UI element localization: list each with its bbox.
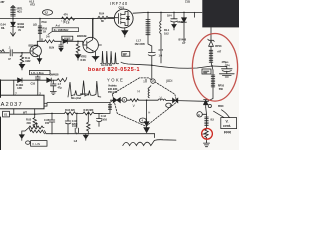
svg-text:BLN: BLN <box>49 45 54 49</box>
svg-text:V. LIN: V. LIN <box>32 142 40 146</box>
tick node F <box>41 39 43 42</box>
capacitor CP4 wide <box>222 69 233 74</box>
H coil <box>148 86 151 98</box>
wire collector drop Q2 <box>92 19 94 38</box>
circled pin 4b <box>139 118 146 123</box>
diode DP2 up <box>204 100 208 108</box>
svg-text:Q1-3: Q1-3 <box>119 5 125 9</box>
capacitor C12 branch <box>51 80 57 91</box>
paper background <box>0 0 239 150</box>
svg-text:R.05: R.05 <box>26 118 32 122</box>
node junction dots on top rail <box>12 18 94 20</box>
svg-text:L1.7: L1.7 <box>136 39 141 43</box>
svg-text:R1.1: R1.1 <box>164 28 170 32</box>
resistor R08 vertical <box>87 113 90 134</box>
ground mid bottom <box>83 134 88 141</box>
diode D10 <box>18 78 38 82</box>
MOSFET Q1 body diode <box>127 15 130 22</box>
svg-text:cent.: cent. <box>223 124 231 128</box>
svg-text:R.04: R.04 <box>99 12 105 16</box>
ground C12 <box>50 92 56 95</box>
red ellipse annotation <box>192 34 237 102</box>
svg-text:R.06 680: R.06 680 <box>84 108 94 112</box>
svg-text:1·8–1·8va: 1·8–1·8va <box>31 71 44 75</box>
tick pin 1 <box>145 79 147 82</box>
diode D12 right <box>63 39 78 43</box>
resistor R04 horizontal <box>98 16 114 19</box>
svg-text:560: 560 <box>219 87 224 91</box>
transistor Q3 emitter arrow <box>37 55 39 57</box>
arrow terminal to bottom wire <box>144 126 149 133</box>
svg-text:4V: 4V <box>18 28 21 32</box>
svg-text:4.8V: 4.8V <box>17 86 22 90</box>
capacitor C10 vertical <box>35 76 40 95</box>
svg-text:FFR: FFR <box>224 131 231 135</box>
capacitor C05 <box>49 113 55 134</box>
resistor R201 top-left vertical <box>11 6 16 19</box>
resistor RP10 ladder <box>206 75 215 102</box>
open circle terminal <box>208 104 211 107</box>
svg-text:R.04 220: R.04 220 <box>65 108 75 112</box>
svg-text:4122: 4122 <box>25 59 31 63</box>
adjust label box <box>31 141 47 147</box>
ground bottom right chain <box>203 142 209 147</box>
transistor Q2 internals <box>83 19 93 52</box>
wire from spikes to cap node <box>121 62 152 65</box>
MOSFET Q1 body circle <box>114 9 133 28</box>
bowtie connector right <box>173 98 178 102</box>
wire to Q2 base <box>78 41 83 45</box>
diode D11 <box>38 78 57 82</box>
resistor 474 horizontal <box>62 17 89 20</box>
waveform scale box <box>122 52 130 57</box>
svg-text:474: 474 <box>64 12 69 16</box>
svg-text:C17: C17 <box>159 48 164 52</box>
svg-text:152-1505: 152-1505 <box>135 42 146 46</box>
svg-text:C.04: C.04 <box>72 119 78 123</box>
svg-text:D.10Ω: D.10Ω <box>16 83 23 87</box>
wire yoke row <box>110 100 208 101</box>
ground under R06 <box>75 55 80 61</box>
svg-text:15/16: 15/16 <box>101 117 108 121</box>
resistor R11 vertical <box>20 53 23 65</box>
svg-text:R.11: R.11 <box>25 56 31 60</box>
capacitor C08 to ground <box>59 41 63 48</box>
wire long bottom <box>45 131 155 138</box>
red circle annotation <box>202 128 213 139</box>
sawtooth waveform <box>68 81 101 98</box>
resistor under pot <box>31 130 45 134</box>
svg-text:Z1Ω: Z1Ω <box>185 0 190 4</box>
ground under C08 <box>59 48 63 51</box>
left edge line lower <box>0 117 2 150</box>
capacitor C14 to ground <box>171 12 178 24</box>
label danger box <box>52 28 78 32</box>
stub squiggle left edge <box>0 50 4 52</box>
resistor R500 ladder <box>205 117 209 129</box>
svg-text:AL-U2 4Ω: AL-U2 4Ω <box>101 63 112 67</box>
resistor R su vertical small <box>108 102 111 113</box>
potentiometer VR1 <box>29 126 44 129</box>
MOSFET Q1 source ground <box>122 28 128 37</box>
resistor R05 vertical <box>33 114 36 127</box>
scalloped waveform <box>123 140 176 146</box>
svg-text:(8DI: (8DI <box>166 79 172 83</box>
thermistor in red circle <box>205 129 208 142</box>
svg-text:LM88F: LM88F <box>63 36 71 40</box>
wire mid-left h <box>0 52 30 54</box>
node dots bottom row <box>51 113 89 115</box>
capacitor C13 <box>96 113 101 126</box>
stub tick near box <box>194 12 196 17</box>
svg-text:V.: V. <box>226 120 229 124</box>
svg-text:1K4: 1K4 <box>167 14 172 18</box>
node box label marks <box>204 71 209 73</box>
svg-text:RP10: RP10 <box>218 84 225 88</box>
svg-text:A-d: A-d <box>56 23 61 27</box>
waveform spikes <box>101 51 119 64</box>
svg-text:G: G <box>198 113 200 117</box>
resistor R18 horizontal <box>45 40 62 43</box>
node dot mid wire <box>21 52 23 54</box>
svg-text:47μ: 47μ <box>58 86 63 90</box>
svg-text:150: 150 <box>45 121 50 125</box>
ground Q2 emitter <box>92 52 98 62</box>
node dot pin junction <box>34 113 36 115</box>
wire chain to CP4 <box>212 66 227 69</box>
node dot yoke stem <box>146 99 148 101</box>
node box label below wire <box>202 69 211 74</box>
svg-text:BD243B: BD243B <box>77 34 87 38</box>
circled G terminal <box>197 112 202 117</box>
svg-text:CP4: CP4 <box>225 64 230 68</box>
svg-text:4Ω1: 4Ω1 <box>17 10 22 14</box>
svg-text:476μs: 476μs <box>222 60 230 64</box>
svg-text:28Γ: 28Γ <box>0 0 5 4</box>
svg-text:19.2: 19.2 <box>164 31 169 35</box>
wire zener chain from box <box>210 28 212 41</box>
resistor R06b horizontal <box>83 112 103 115</box>
node dots rail right <box>147 12 185 14</box>
oval terminal left of box <box>26 141 30 144</box>
circled pin 4 <box>122 98 127 103</box>
diode yoke stem down <box>144 118 149 126</box>
resistor R06 vertical <box>76 41 79 54</box>
svg-text:250: 250 <box>203 132 208 136</box>
svg-text:BD134M: BD134M <box>29 44 39 48</box>
wire pot left to ground <box>22 128 31 135</box>
svg-text:+97: +97 <box>217 49 222 53</box>
svg-text:DIL: DIL <box>1 26 5 30</box>
svg-text:C.06: C.06 <box>72 124 78 128</box>
wire rail to gate <box>88 18 98 20</box>
svg-text:2Ω/2ms: 2Ω/2ms <box>80 92 89 96</box>
transistor Q2 emitter arrow <box>92 50 94 52</box>
svg-text:IRF740: IRF740 <box>110 1 128 6</box>
svg-text:RP13: RP13 <box>215 44 222 48</box>
wire bottom row <box>35 112 110 115</box>
node dot cap junction <box>151 64 153 66</box>
svg-text:8500: 8500 <box>218 104 224 108</box>
svg-text:H: H <box>148 110 150 114</box>
wire driver row <box>37 40 44 42</box>
yoke center stem <box>146 100 148 118</box>
label box LM <box>62 36 73 40</box>
circled pin 2 <box>151 79 155 83</box>
wire G stub <box>202 113 206 115</box>
coil L11 vertical <box>160 12 161 63</box>
svg-text:47R2: 47R2 <box>81 54 87 58</box>
squiggle resistor into yoke row <box>57 78 67 82</box>
svg-text:R.06: R.06 <box>81 58 87 62</box>
svg-text:YOKE: YOKE <box>107 77 124 82</box>
capacitor C re series <box>10 50 12 56</box>
svg-text:DM4Ω8: DM4Ω8 <box>50 73 59 77</box>
IC pin bottom 2 <box>34 109 36 114</box>
diode D204 top-left <box>11 19 15 30</box>
transistor Q2 circle <box>83 37 98 52</box>
ground under C14 <box>172 25 176 31</box>
MOSFET Q1 internal symbol <box>114 12 128 26</box>
node junction chain <box>211 65 213 67</box>
svg-text:DMB: DMB <box>178 20 184 24</box>
IC pin bottom 1 <box>13 109 15 114</box>
svg-text:Vedetta: Vedetta <box>108 83 117 87</box>
svg-text:A2037: A2037 <box>1 102 23 108</box>
wire IC tab feed <box>47 100 113 102</box>
capacitor C06 <box>75 113 78 134</box>
svg-text:board 820-0525-1: board 820-0525-1 <box>88 67 140 73</box>
inductor L17 vertical ladder <box>146 12 152 52</box>
IC U1 box A2037 <box>0 95 44 109</box>
zener diode ZP1 <box>208 39 214 50</box>
wire top rail right of Q1 <box>133 11 202 14</box>
svg-text:P-1.8: P-1.8 <box>64 21 70 25</box>
svg-text:1K: 1K <box>43 30 46 34</box>
svg-text:BY448: BY448 <box>179 37 187 41</box>
wire cap node to chain box <box>152 65 212 68</box>
wire Q2 stub right <box>98 44 101 46</box>
wire bottom feed <box>9 113 34 115</box>
svg-text:C.05: C.05 <box>44 118 50 122</box>
transistor Q3 internals <box>30 41 38 55</box>
bowtie connector left <box>113 98 120 103</box>
capacitor C04 <box>65 113 71 134</box>
wire chain mid <box>212 66 213 75</box>
svg-text:P63 L63: P63 L63 <box>108 90 118 94</box>
svg-text:P1Ω: P1Ω <box>42 20 47 24</box>
left edge line upper <box>0 80 2 98</box>
ground pot <box>19 135 24 141</box>
node dot driver row <box>77 41 79 43</box>
waveform scale box text <box>123 54 126 55</box>
circled pin 6 <box>166 103 172 107</box>
resistor small in yoke row <box>130 99 138 102</box>
svg-text:WT: WT <box>23 110 27 114</box>
yoke dashed outline <box>112 78 177 126</box>
svg-text:ΔΩ: ΔΩ <box>33 23 37 27</box>
V cent box <box>221 118 237 129</box>
ground top-left <box>11 30 16 37</box>
V coil a <box>158 99 166 101</box>
svg-text:E31 E63: E31 E63 <box>108 87 118 91</box>
label box above D11 <box>30 70 51 74</box>
connector box G1 <box>3 111 10 117</box>
resistor R210 second vertical chain <box>38 19 42 42</box>
transistor Q3 circle <box>30 45 41 56</box>
wire top rail left <box>0 18 114 20</box>
IC output tab <box>44 103 47 106</box>
resistor RP13 ladder <box>209 50 213 66</box>
diode BY448 <box>182 12 187 42</box>
capacitor C17 <box>148 53 155 79</box>
ground under R11 <box>19 64 24 70</box>
svg-text:AT.3: AT.3 <box>30 2 35 6</box>
wire chain down <box>205 107 208 117</box>
svg-text:D.04: D.04 <box>1 22 7 26</box>
ground CP4 wide <box>219 74 234 77</box>
V cent pointer curves <box>214 110 230 118</box>
svg-text:3s 10835Ωr: 3s 10835Ωr <box>54 28 70 32</box>
svg-text:C10: C10 <box>31 82 36 86</box>
wire lower-left feed <box>0 79 18 81</box>
resistor R04b horizontal <box>65 112 84 115</box>
svg-text:8Ω+ βnd: 8Ω+ βnd <box>71 96 81 100</box>
node oval 5,2 <box>43 10 53 15</box>
potentiometer wiper arrow <box>36 123 38 127</box>
svg-text:21K: 21K <box>27 121 32 125</box>
IC pin top 1 <box>13 80 15 95</box>
ground Q3 emitter <box>37 56 41 64</box>
svg-text:C.13: C.13 <box>101 114 107 118</box>
